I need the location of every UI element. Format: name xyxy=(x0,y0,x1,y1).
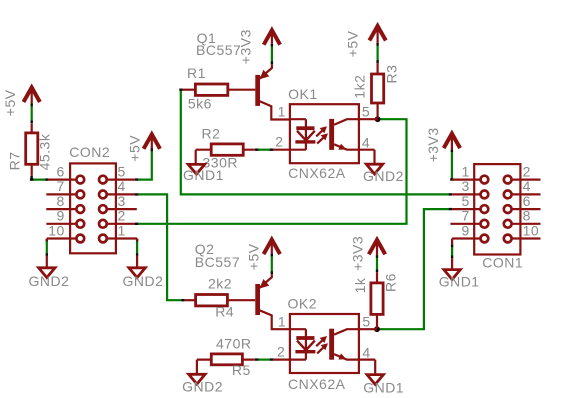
svg-text:5: 5 xyxy=(118,163,126,179)
junction node OK2 pin5/R6 xyxy=(374,326,380,332)
wire CON2 pin 4 down to R4 xyxy=(135,194,185,300)
ground GND2 below OK1 pin 4 xyxy=(363,164,404,184)
resistor R3 1k2 xyxy=(352,63,400,118)
wire R7 to CON2 pin 6 xyxy=(30,176,48,180)
svg-text:GND1: GND1 xyxy=(183,167,224,183)
svg-text:2: 2 xyxy=(275,133,283,149)
svg-text:CNX62A: CNX62A xyxy=(288,165,346,181)
svg-text:+5V: +5V xyxy=(127,135,143,162)
svg-text:1: 1 xyxy=(462,163,470,179)
svg-text:R3: R3 xyxy=(383,65,399,84)
wire +5V arrow to Q2 emitter xyxy=(271,254,273,275)
transistor Q1 BC557 xyxy=(196,30,290,120)
power +3V3 arrow above CON1 pin 1 xyxy=(425,127,460,162)
svg-text:5: 5 xyxy=(462,193,470,209)
svg-text:5k6: 5k6 xyxy=(188,95,212,111)
resistor R7 45.3k xyxy=(7,124,53,176)
svg-text:2: 2 xyxy=(277,343,285,359)
wire R5 to OK2 pin 2 xyxy=(255,359,274,361)
svg-text:4: 4 xyxy=(523,178,531,194)
svg-text:6: 6 xyxy=(57,163,65,179)
svg-text:OK1: OK1 xyxy=(288,86,318,102)
resistor R5 470R xyxy=(197,335,255,377)
ground GND2 below CON2 left xyxy=(29,256,70,289)
svg-text:GND2: GND2 xyxy=(363,168,404,184)
svg-text:470R: 470R xyxy=(216,335,251,351)
svg-text:1: 1 xyxy=(118,222,126,238)
svg-text:OK2: OK2 xyxy=(288,296,318,312)
ground GND2 below CON2 right xyxy=(123,256,164,289)
optocoupler OK1 CNX62A xyxy=(273,86,377,181)
wire CON1 pin 5 to R6/OK2 pin 5 junction xyxy=(378,209,452,329)
svg-text:4: 4 xyxy=(362,134,370,150)
svg-text:4: 4 xyxy=(118,178,126,194)
svg-text:R4: R4 xyxy=(215,304,234,320)
svg-text:+5V: +5V xyxy=(2,89,18,116)
optocoupler OK2 CNX62A xyxy=(273,296,377,392)
svg-text:+5V: +5V xyxy=(345,30,361,57)
resistor R1 5k6 xyxy=(183,65,228,112)
svg-text:8: 8 xyxy=(523,208,531,224)
svg-text:+5V: +5V xyxy=(245,243,261,270)
svg-text:8: 8 xyxy=(57,193,65,209)
svg-text:GND2: GND2 xyxy=(29,273,70,289)
svg-text:1k: 1k xyxy=(352,277,368,293)
svg-text:GND2: GND2 xyxy=(182,379,223,395)
svg-text:GND1: GND1 xyxy=(363,379,404,395)
ground GND2 below R5 xyxy=(182,374,223,394)
svg-text:R1: R1 xyxy=(187,65,206,81)
svg-text:5: 5 xyxy=(362,313,370,329)
wire CON2 pin 5 to +5V arrow xyxy=(135,148,152,179)
svg-text:9: 9 xyxy=(57,208,65,224)
svg-text:1: 1 xyxy=(278,313,286,329)
wire CON2 pin 1 to GND2 xyxy=(136,239,138,256)
resistor R4 2k2 xyxy=(185,275,235,319)
svg-text:45.3k: 45.3k xyxy=(37,133,53,170)
wire +3V3 arrow to R6 xyxy=(376,255,378,272)
power +3V3 arrow above R6 xyxy=(349,236,385,271)
wire +3V3 arrow to Q1 emitter xyxy=(271,44,273,64)
wire CON2 pin 10 to GND2 xyxy=(46,239,48,256)
svg-text:6: 6 xyxy=(523,193,531,209)
svg-text:7: 7 xyxy=(57,178,65,194)
junction node OK1 pin5/R3 xyxy=(375,116,381,122)
wire +5V arrow to R3 xyxy=(377,43,379,63)
ground GND1 below R2 xyxy=(183,164,224,183)
svg-text:5: 5 xyxy=(362,103,370,119)
svg-text:R7: R7 xyxy=(7,151,23,170)
wire R2 to OK1 pin 2 xyxy=(255,149,274,151)
wire CON2 pin 2 to OK1 pin 5 junction xyxy=(135,119,407,224)
svg-text:GND2: GND2 xyxy=(123,273,164,289)
ground GND1 below OK2 pin 4 xyxy=(363,375,404,396)
svg-text:R5: R5 xyxy=(232,362,251,378)
svg-text:1k2: 1k2 xyxy=(352,75,368,99)
connector CON2 xyxy=(46,144,137,253)
ground GND1 below CON1 pin 9 xyxy=(439,258,480,289)
power +5V arrow above R7 xyxy=(2,88,40,117)
svg-text:BC557: BC557 xyxy=(196,42,241,58)
svg-text:GND1: GND1 xyxy=(439,273,480,289)
svg-text:3: 3 xyxy=(118,193,126,209)
power +5V arrow right of CON2 xyxy=(127,134,160,161)
wire +3V3 arrow to CON1 pin 1 xyxy=(450,149,453,180)
wire CON1 pin 9 to GND1 xyxy=(451,244,453,258)
wire R1 to CON1 pin 3 xyxy=(179,90,452,195)
svg-text:9: 9 xyxy=(462,222,470,238)
svg-text:CON2: CON2 xyxy=(69,144,110,160)
svg-text:CON1: CON1 xyxy=(482,254,523,270)
wire +5V arrow to R7 xyxy=(31,104,33,124)
resistor R6 1k xyxy=(352,272,398,328)
svg-text:R2: R2 xyxy=(202,126,221,142)
svg-text:+3V3: +3V3 xyxy=(237,29,253,64)
svg-text:4: 4 xyxy=(362,344,370,360)
svg-text:10: 10 xyxy=(48,222,65,238)
svg-text:2: 2 xyxy=(118,208,126,224)
svg-text:CNX62A: CNX62A xyxy=(288,376,346,392)
power +5V arrow above Q2 xyxy=(245,240,280,271)
connector CON1 xyxy=(450,163,540,270)
svg-text:2k2: 2k2 xyxy=(208,275,232,291)
svg-text:2: 2 xyxy=(523,163,531,179)
power +3V3 arrow above Q1 xyxy=(237,29,280,64)
svg-text:+3V3: +3V3 xyxy=(425,127,441,162)
svg-text:+3V3: +3V3 xyxy=(349,236,365,271)
svg-text:R6: R6 xyxy=(382,273,398,292)
power +5V arrow above R3 xyxy=(345,26,386,57)
svg-text:10: 10 xyxy=(523,222,540,238)
svg-text:7: 7 xyxy=(462,208,470,224)
resistor R2 330R xyxy=(196,126,255,171)
svg-text:3: 3 xyxy=(462,178,470,194)
transistor Q2 BC557 xyxy=(195,241,290,329)
svg-text:BC557: BC557 xyxy=(195,254,240,270)
svg-text:1: 1 xyxy=(278,103,286,119)
